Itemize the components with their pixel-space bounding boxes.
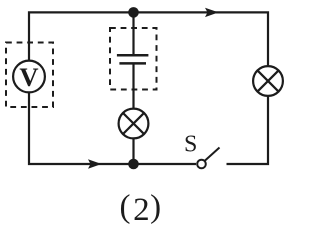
svg-text:(2): (2): [120, 189, 162, 227]
switch S pivot circle: [197, 160, 206, 169]
lamp L2 (right branch): [253, 66, 283, 96]
dashed box around capacitor: [110, 28, 157, 90]
switch S blade: [205, 148, 220, 162]
svg-text:S: S: [184, 132, 197, 158]
lamp L1 (middle branch): [119, 109, 149, 139]
capacitor C1 bottom plate: [119, 62, 146, 65]
arrow on bottom wire (current direction): [88, 159, 102, 168]
arrow on top wire (current direction): [205, 8, 219, 17]
svg-text:V: V: [19, 62, 38, 92]
node B (bottom junction dot): [128, 159, 139, 170]
node A (top junction dot): [128, 7, 139, 18]
voltmeter V1: [13, 61, 45, 93]
wire middle branch lower (capacitor bottom plate to bottom node): [132, 64, 134, 165]
wire outer loop: left, top, right, bottom-right segment: [29, 12, 268, 164]
dashed box around voltmeter: [6, 43, 53, 108]
wire middle branch upper (node to capacitor top plate): [132, 12, 134, 55]
capacitor C1 top plate: [117, 54, 148, 57]
